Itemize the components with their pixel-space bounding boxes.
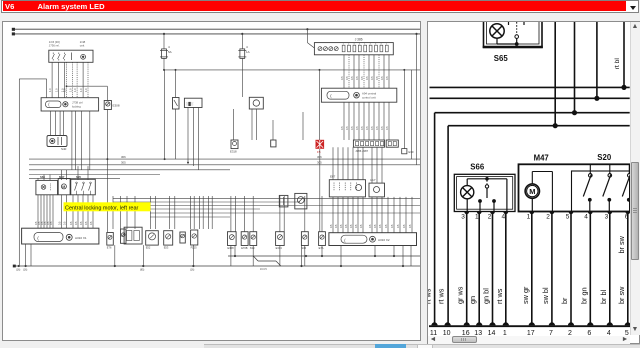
svg-text:1.0: 1.0 xyxy=(48,88,52,92)
svg-text:0.5: 0.5 xyxy=(375,126,379,130)
svg-text:A310 X2: A310 X2 xyxy=(378,238,390,242)
svg-text:0.5: 0.5 xyxy=(380,76,384,80)
svg-text:br: br xyxy=(560,297,569,304)
svg-text:(85): (85) xyxy=(140,269,144,272)
svg-text:S20: S20 xyxy=(597,153,612,162)
svg-text:0.5: 0.5 xyxy=(59,221,62,225)
svg-text:E52: E52 xyxy=(146,246,151,250)
svg-text:16 0.5: 16 0.5 xyxy=(260,268,267,271)
svg-text:0.5: 0.5 xyxy=(370,76,374,80)
svg-text:4: 4 xyxy=(168,45,170,49)
svg-text:gn bl: gn bl xyxy=(482,288,491,304)
svg-text:E318: E318 xyxy=(230,150,237,154)
svg-text:S36: S36 xyxy=(301,246,306,250)
svg-text:E53: E53 xyxy=(164,246,169,250)
svg-text:⟨: ⟨ xyxy=(344,238,346,243)
svg-text:⟨: ⟨ xyxy=(37,236,39,242)
svg-text:F5: F5 xyxy=(317,150,321,154)
svg-text:5: 5 xyxy=(625,330,629,335)
svg-text:1.0: 1.0 xyxy=(73,88,77,92)
svg-text:1A: 1A xyxy=(246,50,250,54)
svg-text:J736 rel.: J736 rel. xyxy=(49,43,60,47)
svg-text:0.5: 0.5 xyxy=(365,126,369,130)
svg-text:S66: S66 xyxy=(40,175,45,179)
svg-text:4: 4 xyxy=(246,45,248,49)
svg-text:(16): (16) xyxy=(190,269,194,272)
svg-text:J386 J387: J386 J387 xyxy=(355,149,368,153)
svg-text:sw gr: sw gr xyxy=(521,286,530,304)
svg-text:S20: S20 xyxy=(76,175,81,179)
svg-text:M47: M47 xyxy=(534,153,549,162)
svg-text:br gn: br gn xyxy=(579,287,588,304)
svg-text:locking: locking xyxy=(72,104,81,108)
svg-text:S66: S66 xyxy=(470,163,485,172)
svg-text:(16): (16) xyxy=(23,269,27,272)
svg-text:S40: S40 xyxy=(61,147,67,151)
svg-text:1: 1 xyxy=(475,214,479,221)
svg-text:0.5: 0.5 xyxy=(385,126,389,130)
svg-text:17: 17 xyxy=(527,330,535,335)
svg-text:2: 2 xyxy=(488,214,492,221)
svg-text:⟨: ⟨ xyxy=(330,94,332,99)
svg-text:sw bl: sw bl xyxy=(541,287,550,304)
svg-text:unit: unit xyxy=(80,43,85,47)
svg-text:Central locking motor, left re: Central locking motor, left rear xyxy=(65,205,139,211)
svg-text:11: 11 xyxy=(430,330,437,335)
svg-text:0.5: 0.5 xyxy=(345,126,349,130)
svg-text:S39: S39 xyxy=(250,246,255,250)
svg-text:br bl: br bl xyxy=(599,289,608,304)
svg-text:rt ws: rt ws xyxy=(428,288,433,304)
svg-text:U17: U17 xyxy=(370,178,376,182)
svg-text:rt ws: rt ws xyxy=(495,288,504,304)
svg-text:0.5: 0.5 xyxy=(370,126,374,130)
svg-text:E76: E76 xyxy=(107,246,112,250)
svg-text:gr ws: gr ws xyxy=(456,286,465,304)
svg-text:2: 2 xyxy=(546,214,550,221)
svg-text:0.5: 0.5 xyxy=(345,76,349,80)
svg-text:0.5: 0.5 xyxy=(360,76,364,80)
svg-text:3: 3 xyxy=(461,214,465,221)
svg-text:4: 4 xyxy=(502,214,506,221)
svg-text:5: 5 xyxy=(566,214,570,221)
svg-text:E70B: E70B xyxy=(241,246,248,250)
svg-text:1.0: 1.0 xyxy=(54,88,58,92)
svg-text:5A: 5A xyxy=(168,50,172,54)
svg-text:A310 X1: A310 X1 xyxy=(75,236,87,240)
svg-text:14: 14 xyxy=(488,330,496,335)
svg-text:1: 1 xyxy=(503,330,507,335)
svg-text:J 386: J 386 xyxy=(355,38,363,42)
svg-text:br sw: br sw xyxy=(617,286,626,304)
svg-text:4: 4 xyxy=(607,330,611,335)
svg-text:0.5: 0.5 xyxy=(360,126,364,130)
svg-text:rt ws: rt ws xyxy=(437,288,446,304)
svg-text:0.5: 0.5 xyxy=(375,76,379,80)
svg-text:0.5: 0.5 xyxy=(355,76,359,80)
svg-text:0.5: 0.5 xyxy=(385,76,389,80)
svg-text:1.0: 1.0 xyxy=(63,88,67,92)
svg-text:rt bl: rt bl xyxy=(614,58,621,70)
svg-text:1.0: 1.0 xyxy=(84,88,88,92)
svg-text:306: 306 xyxy=(121,155,126,159)
svg-text:gn: gn xyxy=(468,296,477,304)
svg-text:0.5: 0.5 xyxy=(340,126,344,130)
svg-text:0.5: 0.5 xyxy=(350,126,354,130)
svg-text:13: 13 xyxy=(474,330,482,335)
svg-text:░█░: ░█░ xyxy=(186,101,194,107)
svg-text:E7A: E7A xyxy=(319,246,324,250)
svg-text:7: 7 xyxy=(549,330,553,335)
svg-text:br sw: br sw xyxy=(617,235,626,253)
svg-text:0.5: 0.5 xyxy=(355,126,359,130)
svg-text:3: 3 xyxy=(605,214,609,221)
svg-text:S65: S65 xyxy=(494,54,509,63)
svg-text:M: M xyxy=(529,187,535,196)
svg-text:16: 16 xyxy=(462,330,470,335)
svg-text:1.0: 1.0 xyxy=(69,88,73,92)
svg-text:2: 2 xyxy=(568,330,572,335)
svg-text:1.0: 1.0 xyxy=(79,88,83,92)
svg-text:6: 6 xyxy=(587,330,591,335)
svg-text:1: 1 xyxy=(527,214,531,221)
svg-text:10: 10 xyxy=(443,330,451,335)
svg-text:⟨: ⟨ xyxy=(48,102,50,107)
svg-text:4: 4 xyxy=(584,214,588,221)
svg-text:0.5: 0.5 xyxy=(340,76,344,80)
svg-text:control unit: control unit xyxy=(362,95,376,99)
svg-text:0.5: 0.5 xyxy=(365,76,369,80)
svg-text:0.5: 0.5 xyxy=(350,76,354,80)
svg-text:(16): (16) xyxy=(16,269,20,272)
svg-text:0.5: 0.5 xyxy=(380,126,384,130)
svg-text:E308: E308 xyxy=(113,104,120,108)
svg-text:F125: F125 xyxy=(191,246,197,250)
svg-text:M: M xyxy=(62,185,65,189)
svg-text:E374: E374 xyxy=(276,246,283,250)
svg-text:305: 305 xyxy=(121,161,126,165)
